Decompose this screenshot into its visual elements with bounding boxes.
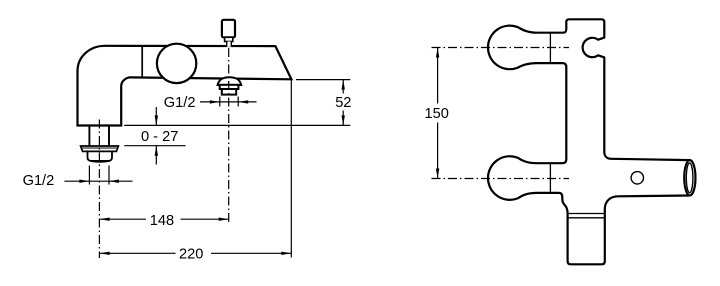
svg-text:G1/2: G1/2 [164, 95, 196, 111]
centerline top arm [432, 47, 570, 49]
wall flange line bottom arm [549, 163, 551, 193]
shower outlet nut lower [222, 89, 236, 95]
svg-text:0 - 27: 0 - 27 [141, 129, 178, 145]
dimension 148 [100, 213, 229, 229]
thread extent ticks bottom [88, 166, 90, 185]
wall flange line top arm [549, 33, 551, 63]
shower outlet nut upper [220, 85, 239, 89]
label G1/2 shower outlet [164, 95, 257, 111]
aerator hole [631, 172, 643, 184]
dimension 52 [335, 80, 351, 126]
diverter knob mid [225, 37, 233, 41]
label G1/2 inlet [23, 173, 133, 189]
mounting nut [88, 151, 113, 161]
mounting flange [81, 146, 119, 151]
svg-text:G1/2: G1/2 [23, 173, 55, 189]
extension line 52 top [296, 79, 350, 81]
front view body outline [488, 19, 695, 264]
centerline inlet pipe [98, 120, 100, 259]
dimension 220 [100, 247, 292, 263]
svg-text:148: 148 [150, 213, 174, 229]
dimension 0 - 27 [141, 107, 178, 165]
svg-text:150: 150 [425, 106, 449, 122]
svg-text:52: 52 [335, 95, 351, 111]
spout end outer rim [684, 160, 695, 195]
faucet body outline (side view) [78, 46, 292, 126]
pipe coupling ring lines [568, 213, 605, 215]
flange level extension line [124, 145, 185, 147]
dimension 150 [425, 48, 449, 179]
valve body separation line [141, 46, 143, 77]
centerline bottom arm [432, 178, 570, 180]
inlet pipe thread lines [88, 126, 90, 147]
centerline shower outlet [228, 48, 230, 224]
svg-text:220: 220 [179, 247, 203, 263]
diverter knob cap [222, 20, 235, 38]
extension line body tip [290, 80, 292, 258]
shower outlet dome cap [218, 77, 242, 85]
diverter stem [227, 42, 232, 47]
spout end bore [686, 163, 693, 193]
handle knob circle [157, 44, 196, 83]
deck mounting plane line [124, 124, 350, 126]
